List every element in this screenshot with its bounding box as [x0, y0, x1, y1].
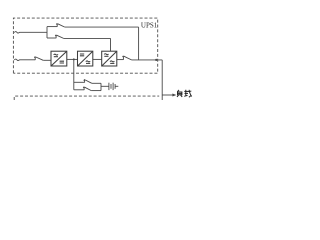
wire: switch to rectifier	[43, 59, 51, 61]
bypass input AC tilde	[14, 32, 19, 34]
battery pole 1 post-switch wire	[92, 82, 101, 84]
wire: DC link	[67, 58, 78, 60]
wire: inverter to static switch	[93, 58, 102, 60]
bypass bottom arm wire (pre-switch)	[47, 37, 56, 39]
switch S3 (static bypass feed)	[55, 35, 63, 39]
UPS2 enclosure dashed box (partial, bottom)	[14, 96, 159, 100]
bypass input wire	[20, 31, 48, 33]
wire: battery branch vertical	[73, 59, 75, 89]
battery switch pole 1 wire	[74, 81, 85, 83]
battery switch pole 2 wire	[74, 89, 84, 91]
wire: static switch to output switch	[117, 59, 123, 61]
switch S5b (battery pole 2)	[83, 87, 91, 91]
output bus wire	[132, 59, 163, 61]
switch S1 (rectifier input)	[34, 56, 43, 60]
battery GB cells	[109, 83, 115, 90]
switch S5a (battery pole 1)	[84, 79, 92, 83]
battery pole 2 post-switch wire	[91, 90, 101, 92]
wire: bypass drop into static switch block	[110, 38, 112, 51]
svg-text:UPS1: UPS1	[141, 21, 158, 29]
main input wire	[20, 59, 36, 61]
switch S4 (output)	[123, 56, 132, 60]
bypass top arm wire (post-switch)	[65, 26, 139, 28]
node: output terminal dot	[155, 59, 157, 61]
inverter U2 (DC/AC)	[78, 51, 93, 66]
label 负载 (load) char2 载	[184, 90, 192, 98]
switch S2 (maintenance bypass)	[56, 23, 65, 27]
wire: output bus down to load/UPS2	[161, 60, 163, 100]
rectifier U1 (AC/DC)	[51, 51, 67, 66]
bypass bottom arm wire (post-switch)	[64, 37, 111, 39]
wire: pole merge bar	[100, 83, 102, 90]
label 负载 (load) char1 负	[177, 90, 182, 97]
wire: bypass top arm drop to output bus	[138, 27, 140, 60]
static switch block U3 (AC/AC)	[102, 51, 117, 66]
input split bracket node	[46, 27, 48, 38]
load arrow	[162, 94, 172, 96]
wire: to battery	[101, 85, 109, 87]
UPS1 enclosure dashed box	[13, 18, 157, 73]
battery stub wire	[115, 85, 118, 87]
node: battery tap junction	[73, 58, 75, 60]
bypass top arm wire (pre-switch)	[47, 26, 57, 28]
main input AC tilde	[14, 59, 19, 61]
